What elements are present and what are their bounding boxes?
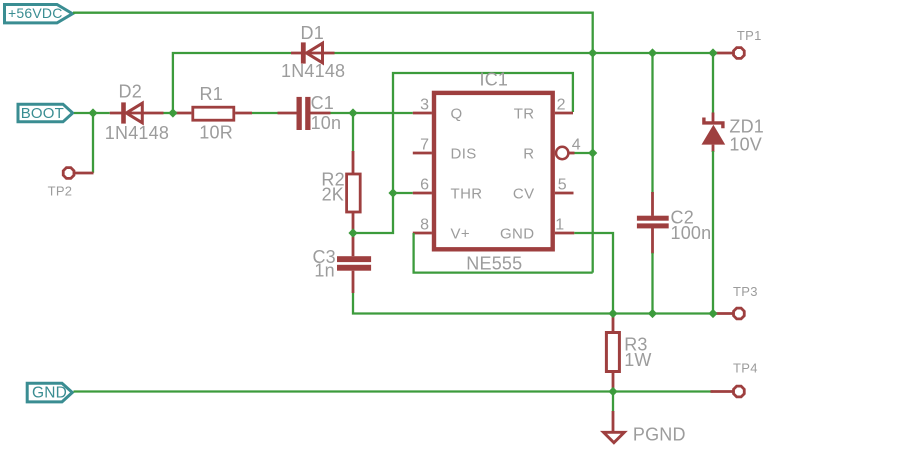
svg-text:BOOT: BOOT [21, 105, 64, 122]
wire C1 to pin3 [331, 112, 413, 114]
wire node B row y53 left segment [173, 53, 291, 112]
svg-text:TP1: TP1 [737, 28, 762, 43]
pin 2 TR stub [555, 112, 573, 115]
zener diode ZD1 [702, 54, 726, 313]
wire THR down to C3 node [355, 194, 394, 233]
ground symbol PGND [604, 411, 625, 443]
svg-text:R: R [523, 146, 534, 163]
junction node BOOT/TP2 [88, 108, 97, 117]
junction node C2 top [648, 48, 657, 57]
svg-text:1N4148: 1N4148 [281, 61, 345, 81]
svg-text:100n: 100n [671, 223, 712, 243]
wire TR loop pin2 to THR [393, 73, 573, 192]
svg-text:10R: 10R [199, 123, 233, 143]
wire R1 to C1 [252, 112, 278, 114]
wire node B row y53 right segment [334, 52, 713, 54]
junction node pin4 R [588, 148, 597, 157]
junction node +56 top [588, 48, 597, 57]
testpoint TP2 [63, 168, 93, 179]
pin 5 CV stub [555, 192, 574, 195]
testpoint TP3 [713, 308, 744, 319]
testpoint TP1 [713, 48, 744, 59]
wire pin4 to +56 rail [575, 152, 593, 154]
svg-text:C1: C1 [311, 93, 334, 113]
junction node R3 top [608, 309, 617, 318]
junction node R3 bottom GND [608, 387, 617, 396]
svg-text:TP4: TP4 [733, 361, 758, 376]
wire TP2 drop [92, 114, 94, 173]
svg-text:6: 6 [420, 177, 429, 194]
svg-text:+56VDC: +56VDC [8, 5, 63, 21]
testpoint TP4 [711, 386, 745, 397]
svg-text:TP2: TP2 [48, 184, 73, 199]
svg-text:7: 7 [420, 137, 429, 154]
wire R3 to PGND [612, 392, 614, 412]
svg-text:8: 8 [420, 217, 429, 234]
capacitor C3 [337, 234, 371, 293]
svg-text:GND: GND [500, 226, 535, 243]
resistor R2 [347, 114, 361, 232]
svg-text:GND: GND [32, 385, 67, 402]
svg-text:5: 5 [558, 177, 567, 194]
svg-text:10n: 10n [311, 113, 342, 133]
net label flag BOOT [18, 104, 73, 122]
svg-text:4: 4 [572, 137, 581, 154]
svg-text:1W: 1W [624, 350, 651, 370]
svg-text:3: 3 [420, 97, 429, 114]
wire pin1 GND to R3 column [574, 233, 613, 312]
svg-text:V+: V+ [451, 226, 471, 243]
wire D2 to R1 [164, 112, 178, 114]
pin 4 R bubble [556, 147, 568, 159]
svg-text:CV: CV [513, 186, 535, 203]
wire +56 vertical rail x593 [592, 53, 594, 273]
svg-text:2: 2 [557, 97, 566, 114]
junction node C1/R2/pin3 [348, 108, 357, 117]
pin 1 GND stub [555, 232, 574, 235]
wire THR junction to pin6 [394, 192, 413, 194]
junction node R2/C3 [348, 228, 357, 237]
wire V+ pin8 feed [414, 233, 593, 273]
svg-text:THR: THR [451, 186, 483, 203]
svg-text:1n: 1n [314, 261, 334, 281]
svg-text:1N4148: 1N4148 [105, 123, 169, 143]
svg-text:TP3: TP3 [733, 284, 758, 299]
svg-text:D2: D2 [119, 81, 142, 101]
diode D1 [291, 42, 335, 63]
resistor R3 [606, 315, 619, 391]
capacitor C2 [637, 54, 669, 313]
capacitor C1 [278, 97, 331, 130]
svg-text:TR: TR [514, 106, 535, 123]
supply flag +56VDC [5, 5, 73, 23]
svg-text:ZD1: ZD1 [729, 117, 764, 137]
svg-text:2K: 2K [322, 184, 344, 204]
junction node THR [388, 188, 397, 197]
svg-text:NE555: NE555 [466, 253, 522, 273]
IC1 NE555 box [434, 93, 553, 249]
svg-text:10V: 10V [729, 135, 762, 155]
wire C3 bottom to TP3 rail [353, 293, 713, 314]
diode D2 [110, 102, 164, 123]
svg-text:D1: D1 [301, 23, 324, 43]
junction node ZD1 top [708, 48, 717, 57]
pin 6 THR stub [413, 192, 432, 195]
wire BOOT row [74, 112, 110, 114]
svg-text:DIS: DIS [451, 146, 477, 163]
junction node C2 bottom [648, 309, 657, 318]
pin 8 V+ stub [413, 232, 432, 235]
pin 7 DIS stub [413, 152, 432, 155]
junction node D1/BOOT [168, 108, 177, 117]
pin 3 Q stub [413, 112, 432, 115]
junction node ZD1 bottom [708, 309, 717, 318]
svg-text:IC1: IC1 [480, 69, 509, 89]
svg-text:PGND: PGND [633, 424, 686, 444]
svg-text:Q: Q [451, 106, 463, 123]
wire GND rail [74, 390, 714, 392]
wire +56VDC top rail [73, 13, 593, 51]
svg-text:1: 1 [555, 217, 564, 234]
resistor R1 [174, 107, 252, 120]
svg-text:R1: R1 [200, 84, 223, 104]
net label flag GND [27, 383, 72, 402]
